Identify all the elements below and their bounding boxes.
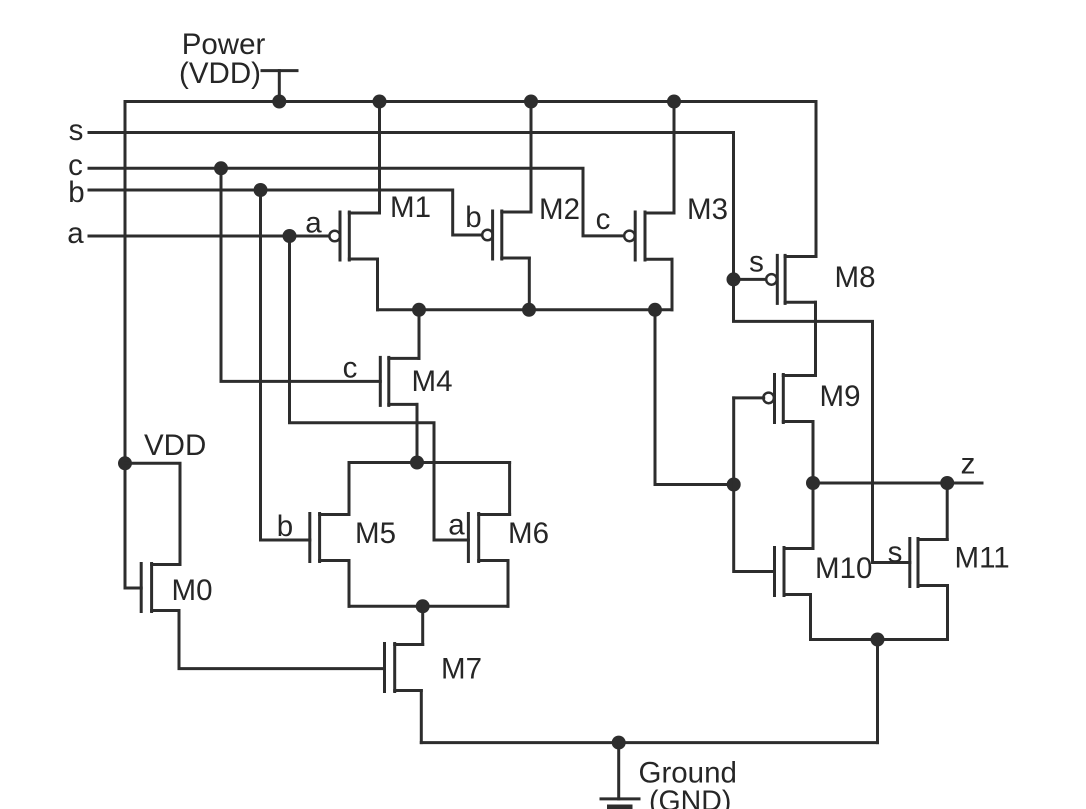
svg-text:c: c <box>596 203 611 236</box>
wire b tap to M5 gate <box>261 190 310 540</box>
wire M11 drain down <box>946 586 949 640</box>
wire M5 drain down <box>348 561 351 607</box>
transistor M2 (PMOS) <box>482 211 531 259</box>
node bus down-tap <box>648 303 662 317</box>
node bottom bus junction <box>416 599 430 613</box>
node bottom bus junction right <box>871 633 885 647</box>
wire M3 source up <box>673 102 676 214</box>
transistor M5 (NMOS) <box>310 514 349 562</box>
svg-text:c: c <box>343 352 358 385</box>
transistor M11 (NMOS) <box>910 539 948 587</box>
wire VDD top rail <box>125 100 816 103</box>
wire z down to M11 source <box>918 483 947 540</box>
svg-text:VDD: VDD <box>144 429 206 462</box>
node M1 source on rail <box>373 95 387 109</box>
wire M0 drain to M7 gate <box>179 611 385 669</box>
wire VDD left leg <box>125 102 141 589</box>
node b tap junction <box>254 183 268 197</box>
wire VDD branch to M0 <box>125 463 180 564</box>
node VDD leg junction <box>118 456 132 470</box>
svg-text:M7: M7 <box>441 653 482 686</box>
svg-text:a: a <box>305 207 322 240</box>
wire M9 drain down to M10 source <box>812 422 815 549</box>
svg-text:(VDD): (VDD) <box>179 57 261 90</box>
wire internal node to gates of M9/M10 <box>655 310 734 485</box>
svg-text:a: a <box>448 509 465 542</box>
svg-text:M10: M10 <box>815 552 872 585</box>
transistor M0 (NMOS) <box>141 564 180 612</box>
svg-text:a: a <box>67 217 84 250</box>
wire bus to M7 source <box>421 606 424 644</box>
svg-text:M0: M0 <box>172 574 213 607</box>
wire M10/M11 bottom bus <box>811 638 948 641</box>
wire VDD rail right drop to M8 source <box>815 102 818 257</box>
svg-text:M9: M9 <box>820 380 861 413</box>
node gate-node junction <box>727 478 741 492</box>
wire M10 drain down <box>809 595 812 640</box>
wire M2 source up <box>530 102 533 213</box>
svg-text:s: s <box>749 246 764 279</box>
wire M5/M6 top bus <box>349 461 510 464</box>
svg-text:M4: M4 <box>412 365 453 398</box>
wire M1 source up <box>378 102 381 214</box>
wire pmos drain bus <box>378 308 673 311</box>
node M2 source on rail <box>524 95 538 109</box>
svg-text:b: b <box>465 201 481 234</box>
wire junction down to ground bus <box>876 640 879 743</box>
svg-text:M3: M3 <box>687 193 728 226</box>
svg-text:M8: M8 <box>835 261 876 294</box>
svg-text:s: s <box>888 536 903 569</box>
wire M6 drain down <box>507 561 510 607</box>
svg-text:M1: M1 <box>390 191 431 224</box>
wire s line <box>89 133 910 563</box>
node Power dot on rail <box>272 95 286 109</box>
wire M3 drain down <box>671 259 674 310</box>
svg-text:b: b <box>68 176 84 209</box>
wire M4 source up <box>418 310 421 359</box>
transistor M8 (PMOS) <box>766 255 816 303</box>
wire c line <box>89 168 625 236</box>
wire b line <box>89 190 483 235</box>
node c tap junction <box>214 161 228 175</box>
wire a tap to M6 gate <box>290 236 469 540</box>
svg-text:z: z <box>961 448 976 481</box>
svg-text:b: b <box>277 510 293 543</box>
transistor M6 (NMOS) <box>468 514 509 562</box>
wire M6 source up <box>508 463 511 515</box>
wire node vertical M9 gate to M10 gate <box>734 398 775 572</box>
wire M7 drain down <box>420 691 423 743</box>
ground symbol <box>601 743 639 809</box>
wire M5 source up <box>348 463 351 515</box>
transistor M3 (PMOS) <box>624 212 674 260</box>
svg-text:M6: M6 <box>508 517 549 550</box>
wire M5/M6 bottom bus <box>349 605 508 608</box>
node M2 drain on bus <box>522 303 536 317</box>
wire M4 drain down <box>416 404 419 462</box>
node a tap junction <box>283 229 297 243</box>
transistor M7 (NMOS) <box>385 644 423 692</box>
node M4 drain junction <box>410 456 424 470</box>
wire M8 gate stub <box>734 278 767 281</box>
wire M1 drain down <box>376 259 379 310</box>
node z left junction <box>806 476 820 490</box>
node s to M8 gate junction <box>727 272 741 286</box>
svg-text:M5: M5 <box>355 517 396 550</box>
svg-text:(GND): (GND) <box>649 786 731 809</box>
node M3 source on rail <box>667 95 681 109</box>
transistor M9 (PMOS) <box>763 375 815 423</box>
wire c tap to M4 gate <box>221 168 380 381</box>
svg-text:M2: M2 <box>539 193 580 226</box>
power VDD symbol <box>262 71 297 102</box>
wire M8 drain to M9 source <box>814 302 817 375</box>
transistor M4 (NMOS) <box>380 357 419 405</box>
svg-text:M11: M11 <box>955 542 1010 575</box>
wire ground bus <box>421 741 877 744</box>
wire M2 drain down <box>528 258 531 310</box>
node bus to M4 <box>412 303 426 317</box>
node z right junction <box>940 476 954 490</box>
wire a line <box>89 235 330 238</box>
transistor M10 (NMOS) <box>775 548 814 596</box>
transistor M1 (PMOS) <box>329 212 379 260</box>
node ground junction <box>612 736 626 750</box>
wire M9 gate stub <box>734 396 764 399</box>
wire z line <box>813 482 982 485</box>
svg-text:s: s <box>69 114 84 147</box>
